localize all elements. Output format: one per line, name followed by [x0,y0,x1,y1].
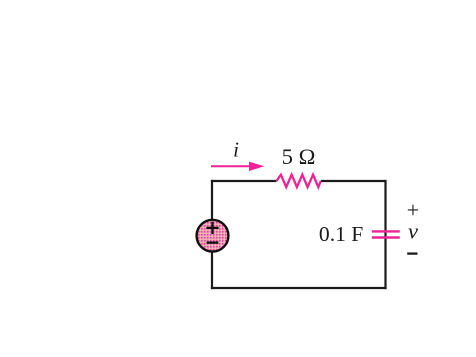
resistor R (5 ohm) zigzag [277,175,321,187]
wire: top segment left (top-left corner to resistor) [211,180,277,182]
svg-text:i: i [233,138,239,162]
capacitor C: top plate [372,230,400,232]
capacitor C: bottom plate [372,236,400,238]
node label: - (capacitor polarity) [407,252,417,254]
wire: left vertical (source branch) [211,180,213,289]
current arrow (i) shaft [211,165,250,167]
voltage source: plus sign [206,222,218,234]
svg-text:5 Ω: 5 Ω [282,144,316,169]
svg-text:v: v [408,219,418,244]
wire: bottom horizontal [211,287,387,289]
wire: right vertical [384,180,386,289]
voltage source: circle [197,220,229,252]
svg-text:0.1 F: 0.1 F [319,222,363,246]
current arrow (i) head [249,162,264,171]
voltage source: minus sign [207,241,219,243]
wire: top segment right (resistor to top-right corner) [321,180,386,182]
